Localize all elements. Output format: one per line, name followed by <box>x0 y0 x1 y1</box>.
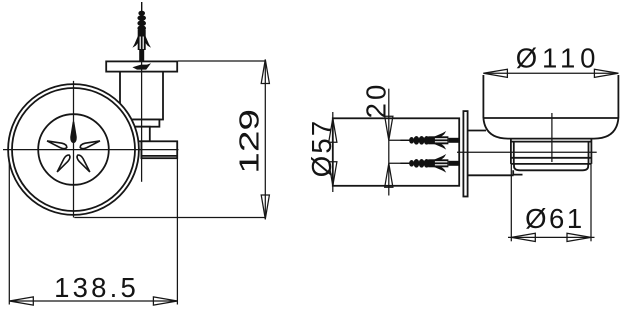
svg-text:138.5: 138.5 <box>54 272 139 303</box>
svg-text:Ø61: Ø61 <box>525 203 584 234</box>
svg-text:20: 20 <box>360 82 391 119</box>
svg-text:Ø57: Ø57 <box>306 119 337 178</box>
svg-text:129: 129 <box>235 109 265 174</box>
svg-text:Ø110: Ø110 <box>516 42 600 73</box>
